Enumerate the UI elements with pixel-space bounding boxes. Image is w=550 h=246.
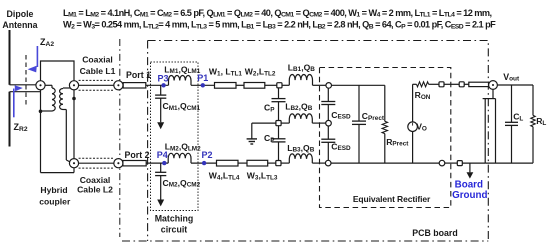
transmission line W1,LTL1: [215, 83, 237, 89]
svg-text:Matching: Matching: [155, 214, 194, 224]
wire CP midpoint to ground: [252, 122, 276, 124]
coupler port circle left: [36, 81, 45, 90]
svg-text:RPrect​: RPrect​: [386, 137, 409, 148]
inductor LM2: [168, 153, 191, 163]
chip pin circle bottom: [325, 160, 331, 166]
svg-text:CP​: CP​: [264, 103, 275, 114]
svg-text:Coaxial: Coaxial: [82, 54, 113, 64]
chip pin circle mid: [326, 120, 332, 126]
svg-text:RL​: RL​: [536, 116, 546, 127]
coax circle port2 side: [114, 159, 123, 168]
PCB ground pad: [457, 161, 462, 166]
svg-text:Board: Board: [455, 180, 483, 191]
svg-text:Dipole: Dipole: [7, 9, 34, 19]
capacitor CESD lower: [327, 126, 329, 139]
svg-text:CM1​,QCM1​: CM1​,QCM1​: [163, 101, 201, 112]
hybrid coupler right winding: [63, 87, 74, 89]
pad square bottom (PCB): [276, 161, 281, 166]
resistor RPrect: [384, 85, 386, 121]
svg-text:Port 1: Port 1: [126, 70, 151, 80]
svg-text:RON​: RON​: [415, 90, 431, 101]
capacitor CP lower: [278, 126, 280, 139]
dipole antenna upper arm: [9, 30, 11, 85]
wire chip bottom rail: [331, 162, 440, 164]
hybrid coupler overpass wire: [41, 61, 75, 81]
capacitor CM1: [160, 85, 162, 95]
coax circle port1 side: [114, 81, 123, 90]
wire to PCB pad: [444, 83, 459, 85]
capacitor CM2: [160, 163, 162, 172]
resistor RON: [413, 83, 417, 85]
svg-text:W4​,LTL4​: W4​,LTL4​: [209, 171, 240, 182]
ZR2 impedance arrow: [13, 89, 15, 118]
svg-text:LM1​,QLM1​: LM1​,QLM1​: [164, 64, 200, 75]
ground return trace: [484, 99, 486, 164]
voltage source VO: [408, 122, 418, 132]
ground arrow CM2: [160, 176, 162, 200]
chip pin circle top: [326, 83, 332, 89]
junction dot right: [72, 97, 76, 101]
svg-text:circuit: circuit: [161, 225, 187, 235]
svg-text:P2: P2: [202, 150, 213, 160]
wire LM2 to W4: [191, 162, 217, 164]
wire pad to LB3: [281, 162, 289, 164]
svg-text:LB1​,QB​: LB1​,QB​: [288, 62, 316, 73]
node Vout circle: [489, 81, 498, 90]
ZA2 impedance arrow: [36, 46, 38, 67]
node P4: [162, 161, 166, 165]
transmission line W4,LTL4: [217, 160, 239, 166]
chip output pad: [439, 82, 444, 87]
node P2: [202, 161, 206, 165]
junction dot left: [39, 110, 43, 114]
capacitor CESD upper: [327, 88, 329, 101]
wire vout stem: [492, 89, 494, 98]
svg-text:ZA2​: ZA2​: [40, 37, 54, 48]
pad square mid (PCB): [276, 121, 281, 126]
svg-text:PCB board: PCB board: [412, 228, 457, 238]
svg-text:LM1​ = LM2​ = 4.1nH, CM1​ = CM: LM1​ = LM2​ = 4.1nH, CM1​ = CM2​ = 6.5 p…: [63, 8, 492, 19]
wire pad to LB2: [281, 122, 289, 124]
svg-text:Hybrid: Hybrid: [40, 185, 67, 195]
svg-text:LM2​,QLM2​: LM2​,QLM2​: [165, 142, 201, 153]
svg-text:W1​, LTL1​: W1​, LTL1​: [209, 67, 243, 78]
ground symbol: [247, 138, 257, 140]
capacitor CP upper: [278, 88, 280, 99]
svg-text:Port 2: Port 2: [125, 150, 150, 160]
wire port2 to P4/LM2: [146, 162, 168, 164]
antenna reference plane dashed line: [25, 55, 27, 105]
svg-text:P3: P3: [158, 73, 169, 83]
wire chip top rail: [331, 84, 385, 86]
svg-text:W3​,LTL3​: W3​,LTL3​: [247, 171, 278, 182]
pad square top (PCB): [277, 83, 282, 88]
svg-text:VO​: VO​: [416, 122, 427, 133]
PCB output pad: [459, 82, 464, 87]
svg-text:CESD​: CESD​: [331, 110, 351, 121]
svg-text:W2​,LTL2​: W2​,LTL2​: [245, 67, 276, 78]
coaxial cable L1: [79, 79, 114, 81]
Port 1 connector rect: [123, 83, 146, 88]
inductor LB2 (bond wire): [289, 114, 312, 123]
svg-text:CM2​,QCM2​: CM2​,QCM2​: [163, 178, 201, 189]
board ground arrow: [469, 163, 471, 172]
Port 2 connector rect: [123, 161, 146, 166]
transmission line W2,LTL2: [244, 83, 265, 89]
dipole antenna lower arm: [9, 92, 11, 147]
wire antenna feed bottom: [10, 91, 41, 93]
capacitor CL: [511, 85, 513, 122]
hybrid coupler left winding: [45, 84, 52, 86]
inductor LB1 (bond wire): [289, 74, 312, 85]
wire LM1 to W1: [191, 84, 215, 86]
svg-text:Cable L1: Cable L1: [80, 66, 116, 76]
svg-text:CPrect​: CPrect​: [362, 111, 385, 122]
svg-text:Coaxial: Coaxial: [80, 175, 111, 185]
wire vout top rail: [497, 84, 533, 86]
wire pad to LB1: [282, 84, 289, 86]
coupler port circle right: [69, 81, 78, 90]
svg-text:CL​: CL​: [513, 112, 523, 123]
svg-text:CESD​: CESD​: [331, 141, 351, 152]
ground arrow CM1: [160, 98, 162, 122]
coax circle coupler port2 side: [69, 159, 78, 168]
svg-text:coupler: coupler: [39, 197, 71, 207]
svg-text:ZR2​: ZR2​: [14, 122, 28, 133]
svg-text:LB3​,QB​: LB3​,QB​: [287, 143, 315, 154]
resistor RL: [532, 85, 534, 115]
wire port1 to P3/LM1: [146, 84, 169, 86]
svg-text:W2​ = W3​= 0.254 mm, LTL2​= 4: W2​ = W3​= 0.254 mm, LTL2​= 4 mm, LTL3​ …: [63, 20, 496, 31]
capacitor CPrect: [358, 85, 360, 121]
svg-text:Cable L2: Cable L2: [77, 185, 113, 195]
matching circuit dotted box: [151, 62, 199, 211]
wire antenna feed top: [10, 84, 37, 86]
chip ground pin circle: [439, 160, 445, 166]
output microstrip rect: [469, 82, 489, 86]
inductor LB3 (bond wire): [289, 154, 312, 163]
svg-text:Equivalent Rectifier: Equivalent Rectifier: [353, 194, 431, 204]
node P1: [201, 83, 205, 87]
wire VO branch: [412, 132, 414, 164]
port reference plane dash-dot line: [119, 39, 121, 237]
svg-text:LB2​,QB​: LB2​,QB​: [285, 101, 313, 112]
equivalent rectifier dashed box: [320, 68, 451, 208]
svg-text:Ground: Ground: [452, 190, 487, 201]
svg-text:Antenna: Antenna: [2, 20, 37, 30]
svg-text:Vout​: Vout​: [503, 72, 520, 83]
inductor LM1: [169, 75, 192, 85]
transmission line W3,LTL3: [247, 160, 268, 166]
load bottom rail: [485, 162, 533, 164]
svg-text:CP​: CP​: [264, 133, 275, 144]
wire coupler right branch down: [73, 90, 75, 158]
PCB board dash-dot outline: [148, 41, 489, 242]
node P3: [161, 83, 165, 87]
coaxial cable L2: [79, 157, 114, 159]
wire coupler left branch down: [40, 90, 42, 173]
